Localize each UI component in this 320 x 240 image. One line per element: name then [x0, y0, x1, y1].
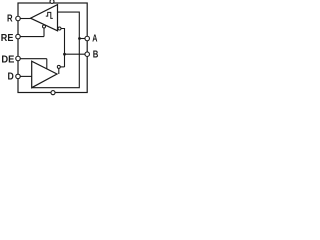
- driver inverting output bubble: [57, 65, 60, 68]
- wire receiver noninverting input from A net and driver output: [32, 12, 80, 88]
- svg-text:D: D: [8, 71, 15, 83]
- receiver inverting input bubble: [58, 27, 61, 30]
- node B junction: [63, 53, 66, 56]
- op-amp driver triangle: [32, 61, 57, 87]
- wire DE enable horizontal: [20, 58, 47, 60]
- wire B pin: [65, 53, 86, 55]
- wire A pin: [80, 38, 86, 40]
- pin A terminal: [85, 36, 90, 41]
- IC body box: [18, 3, 87, 93]
- svg-text:B: B: [93, 49, 99, 61]
- svg-text:RE: RE: [1, 32, 14, 44]
- receiver enable bubble: [43, 25, 46, 28]
- pin VCC terminal top: [50, 0, 54, 3]
- wire receiver inverting input from B net: [61, 29, 65, 68]
- node A junction: [78, 37, 81, 40]
- svg-text:R: R: [7, 12, 13, 24]
- wire driver inverting output stub: [58, 68, 60, 74]
- svg-text:A: A: [92, 33, 97, 45]
- hysteresis symbol: [46, 12, 53, 18]
- wire RE enable vertical: [43, 28, 45, 37]
- wire D input: [20, 75, 32, 77]
- pin DE terminal: [16, 56, 21, 61]
- svg-text:DE: DE: [1, 54, 14, 66]
- pin R terminal: [16, 16, 21, 21]
- wire R output: [20, 18, 31, 20]
- pin D terminal: [16, 74, 21, 79]
- pin RE terminal: [16, 34, 21, 39]
- pin GND terminal bottom: [51, 91, 55, 95]
- wire RE enable horizontal: [20, 36, 44, 38]
- op-amp receiver triangle: [31, 5, 58, 31]
- pin B terminal: [85, 52, 90, 57]
- wire driver inverting output to B net: [60, 66, 64, 68]
- wire DE enable vertical: [46, 59, 48, 69]
